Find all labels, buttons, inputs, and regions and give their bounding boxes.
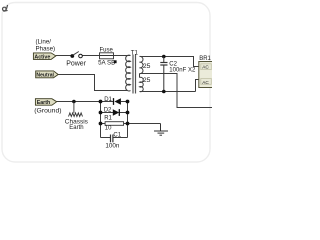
- node chassis junction: [72, 100, 76, 104]
- net label Neutral: [36, 71, 59, 78]
- fuse F1 body: [100, 53, 114, 59]
- wire to chassis ground: [128, 123, 161, 125]
- wire D2 row: [101, 112, 114, 114]
- svg-text:D1: D1: [104, 97, 112, 103]
- svg-text:Fuse: Fuse: [100, 48, 114, 54]
- wire active to switch: [56, 55, 71, 57]
- svg-text:Neutral: Neutral: [36, 72, 54, 78]
- wire right bus: [127, 102, 129, 138]
- transformer T1 primary winding: [126, 55, 131, 91]
- pin AC lower: [201, 79, 212, 85]
- node right bus D1: [126, 100, 130, 104]
- transformer T1 secondary winding 1: [140, 56, 144, 73]
- svg-text:C1: C1: [113, 133, 121, 139]
- svg-text:100nF X2: 100nF X2: [169, 68, 196, 74]
- wire switch to fuse: [82, 55, 100, 57]
- diode D2: [113, 109, 120, 116]
- node right bus R1: [126, 122, 130, 126]
- svg-text:T1: T1: [131, 49, 139, 56]
- svg-text:Power: Power: [66, 61, 87, 68]
- svg-text:D2: D2: [104, 107, 112, 113]
- wire riser to lower AC pin: [196, 80, 199, 92]
- svg-text:Active: Active: [34, 54, 50, 60]
- node left bus D2: [99, 111, 103, 115]
- node left bus R1: [99, 122, 103, 126]
- corner attachment glyph: [3, 5, 8, 11]
- svg-text:Phase): Phase): [36, 46, 56, 53]
- capacitor C2: [160, 57, 167, 92]
- svg-text:25: 25: [143, 77, 151, 84]
- svg-text:AC: AC: [202, 64, 209, 69]
- bridge rectifier BR1 body: [199, 62, 213, 88]
- wire fuse to transformer primary: [114, 55, 131, 57]
- svg-text:100n: 100n: [105, 143, 120, 150]
- node right bus D2: [126, 111, 130, 115]
- svg-text:(Ground): (Ground): [34, 108, 61, 115]
- node secondary top junction: [162, 55, 166, 59]
- value square bullet: [114, 60, 117, 63]
- node left bus D1: [99, 100, 103, 104]
- svg-text:R1: R1: [104, 115, 112, 121]
- resistor R1: [105, 122, 124, 126]
- diode D1: [114, 98, 121, 105]
- wire secondary bottom: [140, 91, 196, 93]
- chassis earth symbol: [69, 102, 83, 117]
- wire neutral to primary bottom: [58, 75, 127, 91]
- switch S1 lever: [73, 52, 79, 56]
- net label Active: [33, 53, 56, 60]
- wire R1 row: [101, 123, 106, 125]
- transformer T1 core: [132, 55, 134, 94]
- svg-text:10: 10: [105, 126, 112, 132]
- thumbnail rounded border: [2, 3, 210, 163]
- wire C1 row: [101, 137, 111, 139]
- wire left bus: [100, 102, 102, 138]
- pin AC upper: [201, 64, 212, 70]
- net label Earth: [35, 99, 56, 106]
- node secondary bottom junction: [162, 90, 166, 94]
- capacitor C1: [111, 135, 113, 143]
- switch S1 throw contact: [79, 54, 83, 58]
- svg-text:Earth: Earth: [37, 100, 51, 106]
- switch S1 pole dot: [70, 54, 74, 58]
- wire center tap link: [139, 74, 141, 78]
- wire secondary center tap rail: [140, 74, 213, 108]
- wire earth label to network: [57, 101, 101, 103]
- svg-text:Earth: Earth: [69, 125, 83, 131]
- transformer T1 secondary winding 2: [140, 77, 144, 92]
- sheet background: [0, 0, 212, 172]
- svg-text:AC: AC: [202, 80, 209, 85]
- svg-text:5A SB: 5A SB: [98, 60, 115, 67]
- wire secondary top to BR1 upper AC pin: [140, 57, 199, 67]
- earth ground symbol: [154, 124, 168, 136]
- svg-text:25: 25: [143, 63, 151, 70]
- svg-text:C2: C2: [169, 62, 177, 68]
- svg-text:BR1: BR1: [199, 56, 211, 62]
- wire D1 row: [101, 101, 114, 103]
